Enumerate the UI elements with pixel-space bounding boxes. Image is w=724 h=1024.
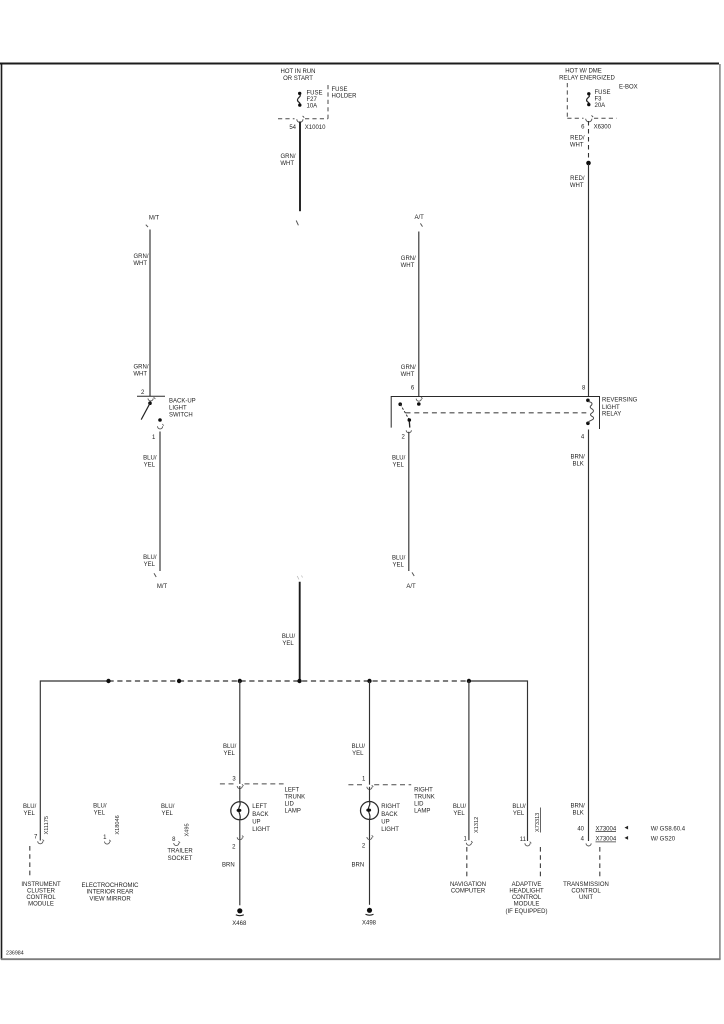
label FUSE HOLDER (332, 87, 358, 100)
svg-text:MODULE: MODULE (28, 901, 54, 907)
svg-text:RED/: RED/ (570, 176, 585, 182)
svg-text:(IF EQUIPPED): (IF EQUIPPED) (505, 909, 547, 915)
svg-text:YEL: YEL (162, 811, 174, 817)
wire BLU/YEL from switch (159, 432, 161, 572)
svg-text:BLU/: BLU/ (161, 804, 175, 810)
svg-text:F3: F3 (595, 97, 603, 103)
svg-text:BLU/: BLU/ (392, 555, 406, 561)
label INSTRUMENT CLUSTER CONTROL MODULE (21, 882, 61, 908)
continuation tick A/T bottom (412, 572, 414, 576)
svg-text:40: 40 (577, 826, 584, 832)
connector tick at relay pin 2 (406, 430, 411, 433)
label NAVIGATION COMPUTER (450, 882, 486, 895)
svg-text:BRN/: BRN/ (570, 454, 585, 460)
wire BLU/YEL from relay pin 2 (408, 432, 410, 571)
label TRAILER SOCKET (167, 849, 193, 863)
svg-text:OR START: OR START (283, 76, 313, 82)
svg-text:WHT: WHT (570, 183, 584, 189)
continuation tick under feed wire (296, 221, 298, 226)
svg-text:UP: UP (381, 819, 389, 825)
connector symbol at E-box exit (586, 115, 593, 122)
svg-text:A/T: A/T (406, 584, 416, 590)
wire label BLU/YEL (trailer socket) (161, 804, 175, 817)
ground X468 (232, 908, 247, 927)
svg-text:LID: LID (285, 801, 295, 807)
svg-text:INSTRUMENT: INSTRUMENT (21, 882, 61, 888)
wire RED/WHT to relay pin 8 (588, 164, 590, 397)
label LEFT TRUNK LID LAMP (285, 787, 306, 814)
fuse F3 20A (587, 90, 611, 109)
reversing light relay K relay box (391, 397, 599, 430)
connector X73004 underlined (596, 826, 617, 832)
svg-text:INTERIOR REAR: INTERIOR REAR (86, 890, 134, 896)
svg-text:11: 11 (520, 837, 527, 843)
connector tick right lamp pin 1 (367, 785, 373, 789)
wire label BLU/YEL (nav) (453, 804, 467, 817)
svg-text:YEL: YEL (453, 811, 465, 817)
svg-text:F27: F27 (307, 97, 318, 103)
wire dashed into instrument cluster (29, 846, 31, 878)
right back up light bulb E2 (361, 787, 379, 820)
svg-text:E-BOX: E-BOX (619, 85, 638, 91)
continuation tick M/T bottom (154, 573, 156, 577)
wire GRN/WHT M/T branch (149, 230, 151, 397)
relay armature blade (398, 402, 411, 427)
back-up light switch S (137, 396, 165, 422)
wire label BLU/YEL (392, 455, 406, 468)
svg-text:SOCKET: SOCKET (168, 856, 193, 862)
wire GRN/WHT feed from fuse F27 (299, 122, 301, 212)
svg-text:HOT IN RUN: HOT IN RUN (281, 69, 316, 75)
svg-text:YEL: YEL (513, 811, 525, 817)
svg-text:LID: LID (414, 801, 424, 807)
svg-text:TRANSMISSION: TRANSMISSION (563, 882, 609, 888)
wire dashed into adaptive headlight module (539, 847, 541, 878)
wire label BLU/YEL (instrument cluster) (23, 804, 37, 817)
relay coil (586, 399, 594, 426)
wire label BRN/BLK (570, 803, 585, 816)
svg-text:RELAY ENERGIZED: RELAY ENERGIZED (559, 75, 615, 81)
svg-text:LEFT: LEFT (252, 804, 267, 810)
svg-text:LAMP: LAMP (285, 808, 301, 814)
svg-text:W/ GS8.60.4: W/ GS8.60.4 (651, 826, 686, 832)
pin 54 connector X10010 (289, 125, 326, 131)
wire label GRN/WHT (133, 254, 149, 267)
node splice on bus (nav tap) (467, 679, 471, 683)
svg-text:GRN/: GRN/ (401, 365, 416, 371)
svg-text:X495: X495 (185, 823, 191, 836)
wire dashed into navigation computer (466, 847, 468, 878)
wire label GRN/WHT (280, 154, 296, 167)
svg-text:HOT W/ DME: HOT W/ DME (565, 68, 602, 74)
svg-text:CLUSTER: CLUSTER (27, 888, 56, 894)
svg-text:MODULE: MODULE (514, 902, 540, 908)
connector tick TCU (586, 843, 591, 846)
node splice on bus (mirror tap) (106, 679, 110, 683)
wire label BLU/YEL (mirror) (93, 803, 107, 816)
svg-text:TRUNK: TRUNK (285, 794, 306, 800)
connector symbol at fuse box exit (297, 116, 304, 123)
left trunk lid lamp dashed boundary (220, 783, 284, 785)
svg-text:BACK: BACK (381, 812, 397, 818)
connector tick mirror (104, 840, 110, 844)
fuse F27 10A (297, 91, 322, 110)
svg-text:BLU/: BLU/ (93, 803, 107, 809)
svg-text:HEADLIGHT: HEADLIGHT (509, 889, 544, 895)
connector tick navigation computer (466, 841, 472, 845)
pin 6 connector X6300 (581, 124, 611, 130)
svg-text:ELECTROCHROMIC: ELECTROCHROMIC (81, 883, 139, 889)
svg-text:W/ GS20: W/ GS20 (651, 837, 676, 843)
svg-text:RIGHT: RIGHT (414, 787, 433, 793)
wire label GRN/WHT (401, 256, 417, 269)
svg-text:BLU/: BLU/ (143, 555, 157, 561)
wire label BLU/YEL (392, 555, 406, 568)
svg-text:CONTROL: CONTROL (571, 889, 601, 895)
label REVERSING LIGHT RELAY (602, 397, 638, 417)
connector tick right lamp pin 2 (367, 835, 373, 839)
svg-text:YEL: YEL (392, 462, 404, 468)
svg-text:YEL: YEL (392, 562, 404, 568)
svg-text:M/T: M/T (149, 215, 160, 221)
svg-text:HOLDER: HOLDER (332, 94, 358, 100)
connector tick trailer socket (174, 841, 180, 845)
svg-text:CONTROL: CONTROL (26, 895, 56, 901)
svg-text:YEL: YEL (144, 562, 156, 568)
node splice on bus (trailer tap) (177, 679, 181, 683)
connector tick instrument cluster (38, 840, 44, 844)
svg-text:BLU/: BLU/ (143, 455, 157, 461)
svg-text:RED/: RED/ (570, 136, 585, 142)
svg-text:SWITCH: SWITCH (169, 412, 193, 418)
svg-text:WHT: WHT (401, 263, 415, 269)
svg-text:YEL: YEL (352, 751, 364, 757)
svg-text:BLU/: BLU/ (23, 804, 37, 810)
svg-text:LEFT: LEFT (285, 787, 300, 793)
svg-text:GRN/: GRN/ (401, 256, 416, 262)
wire BLU/YEL drop to left back up light (239, 681, 241, 784)
svg-text:NAVIGATION: NAVIGATION (450, 882, 486, 888)
svg-text:BACK: BACK (252, 812, 268, 818)
svg-text:54: 54 (289, 125, 296, 131)
svg-text:FUSE: FUSE (332, 87, 348, 93)
wire label RED/WHT (570, 136, 585, 149)
label BACK-UP LIGHT SWITCH (169, 398, 196, 418)
wire label RED/WHT (570, 176, 585, 189)
svg-text:236984: 236984 (6, 951, 24, 957)
svg-text:BLU/: BLU/ (282, 634, 296, 640)
svg-text:UP: UP (252, 819, 260, 825)
wire BRN from right lamp (369, 820, 371, 905)
connector X73004 underlined (row 2) (596, 837, 617, 843)
wire BRN from left lamp (239, 820, 241, 906)
label RIGHT BACK UP LIGHT (381, 804, 400, 833)
svg-text:WHT: WHT (401, 372, 415, 378)
svg-text:BLU/: BLU/ (512, 804, 526, 810)
wire GRN/WHT A/T branch (418, 232, 420, 397)
node splice on bus (center feed) (297, 679, 301, 683)
wire label BLU/YEL (352, 744, 366, 757)
wire label GRN/WHT (133, 364, 149, 377)
svg-text:BLK: BLK (572, 810, 583, 816)
wire BLU/YEL center feed (299, 582, 301, 681)
svg-text:A/T: A/T (415, 215, 425, 221)
svg-text:YEL: YEL (23, 811, 35, 817)
svg-text:VIEW MIRROR: VIEW MIRROR (89, 896, 131, 902)
svg-text:X498: X498 (362, 920, 377, 926)
wire dashed into TCU (599, 847, 601, 878)
fuse holder dashed box (left) (278, 85, 328, 119)
label ELECTROCHROMIC INTERIOR REAR VIEW MIRROR (81, 883, 139, 902)
svg-text:BLU/: BLU/ (352, 744, 366, 750)
svg-text:RELAY: RELAY (602, 412, 621, 418)
wire BRN/BLK from relay pin 4 to TCU (588, 430, 590, 842)
label ADAPTIVE HEADLIGHT CONTROL MODULE (IF EQUIPPED) (505, 882, 547, 915)
connector tick left lamp pin 2 (237, 836, 243, 840)
E-BOX dashed boundary (567, 83, 616, 118)
wire label BLU/YEL (143, 455, 157, 468)
relay mechanical link (dashed) (406, 412, 587, 414)
connector tick left lamp pin 3 (237, 784, 243, 788)
svg-text:BRN: BRN (222, 863, 235, 869)
svg-text:BLU/: BLU/ (223, 744, 237, 750)
svg-text:RIGHT: RIGHT (381, 804, 400, 810)
wire label BRN/BLK (upper) (570, 454, 585, 467)
node splice on bus (left lamp tap) (238, 679, 242, 683)
svg-text:YEL: YEL (282, 641, 294, 647)
wire BLU/YEL drop to navigation computer (468, 681, 470, 840)
label TRANSMISSION CONTROL UNIT (563, 882, 609, 901)
wire label GRN/WHT (401, 365, 417, 378)
svg-text:BLU/: BLU/ (453, 804, 467, 810)
svg-text:BLK: BLK (572, 461, 583, 467)
svg-text:X6300: X6300 (594, 124, 612, 130)
svg-text:BRN/: BRN/ (570, 803, 585, 809)
left back up light bulb E1 (231, 786, 249, 820)
connector X73313 underlined (vertical) (535, 808, 541, 833)
svg-text:LAMP: LAMP (414, 808, 430, 814)
center feed continuation marks (297, 576, 302, 580)
svg-text:LIGHT: LIGHT (381, 827, 399, 833)
svg-text:BRN: BRN (352, 862, 365, 868)
node splice on bus (right lamp tap) (367, 679, 371, 683)
svg-text:LIGHT: LIGHT (252, 827, 270, 833)
svg-text:GRN/: GRN/ (281, 154, 296, 160)
label RIGHT TRUNK LID LAMP (414, 787, 435, 814)
wire label BLU/YEL (adaptive headlight) (512, 804, 526, 817)
right trunk lid lamp dashed boundary (348, 784, 411, 786)
relay switch contact (fixed, pin 6) (417, 402, 421, 406)
svg-text:ADAPTIVE: ADAPTIVE (512, 882, 542, 888)
continuation tick M/T top (146, 225, 148, 227)
svg-text:TRAILER: TRAILER (167, 849, 193, 855)
svg-text:M/T: M/T (157, 584, 168, 590)
label LEFT BACK UP LIGHT (252, 804, 270, 833)
svg-text:YEL: YEL (223, 751, 235, 757)
svg-text:YEL: YEL (144, 462, 156, 468)
wire RED/WHT dashed inside E-box (588, 121, 590, 160)
svg-text:REVERSING: REVERSING (602, 397, 638, 403)
svg-text:WHT: WHT (133, 371, 147, 377)
svg-text:CONTROL: CONTROL (512, 895, 542, 901)
svg-text:UNIT: UNIT (579, 895, 593, 901)
connector tick below switch contact (158, 424, 164, 429)
connector tick adaptive headlight (525, 842, 531, 846)
svg-text:FUSE: FUSE (307, 91, 323, 97)
wire BLU/YEL drop to right back up light (369, 681, 371, 785)
svg-text:GRN/: GRN/ (134, 254, 149, 260)
ground X498 (362, 908, 377, 927)
arrow marker row 1 (625, 826, 629, 830)
wire label BLU/YEL (223, 744, 237, 757)
svg-text:TRUNK: TRUNK (414, 794, 435, 800)
svg-text:X18046: X18046 (115, 815, 121, 834)
svg-text:X11175: X11175 (44, 816, 50, 834)
bus wire BLU/YEL horizontal (40, 681, 527, 841)
wire label BLU/YEL (282, 634, 296, 647)
svg-text:YEL: YEL (94, 810, 106, 816)
svg-text:20A: 20A (595, 103, 606, 109)
svg-text:BLU/: BLU/ (392, 455, 406, 461)
svg-text:WHT: WHT (280, 161, 294, 167)
label HOT IN RUN OR START (281, 69, 316, 82)
wire label BLU/YEL (143, 555, 157, 568)
svg-text:X10010: X10010 (305, 125, 326, 131)
svg-text:GRN/: GRN/ (134, 364, 149, 370)
label HOT W/ DME RELAY ENERGIZED (559, 68, 615, 81)
svg-text:WHT: WHT (133, 261, 147, 267)
splice node (586, 161, 591, 166)
connector tick at relay pin 6 (416, 397, 422, 401)
svg-text:LIGHT: LIGHT (169, 405, 187, 411)
continuation tick A/T top (420, 223, 422, 226)
svg-text:X1312: X1312 (474, 817, 480, 833)
svg-text:BACK-UP: BACK-UP (169, 398, 196, 404)
svg-text:10A: 10A (307, 104, 318, 110)
svg-text:WHT: WHT (570, 143, 584, 149)
arrow marker row 2 (625, 836, 629, 840)
svg-text:X468: X468 (232, 921, 247, 927)
svg-text:COMPUTER: COMPUTER (451, 889, 486, 895)
svg-text:FUSE: FUSE (595, 90, 611, 96)
svg-text:LIGHT: LIGHT (602, 405, 620, 411)
